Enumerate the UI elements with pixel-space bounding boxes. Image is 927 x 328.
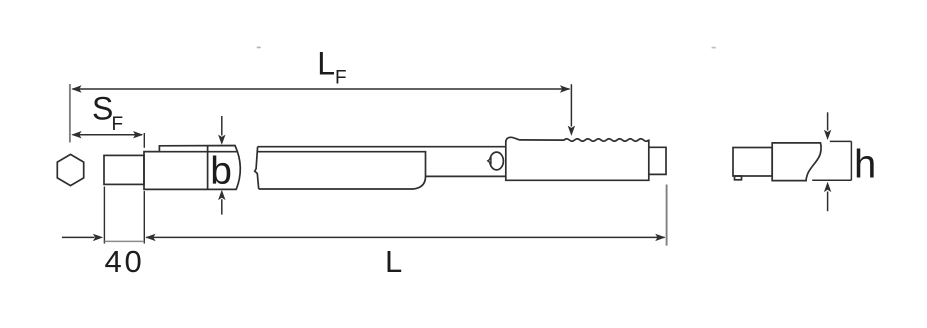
svg-text:F: F (335, 68, 347, 89)
svg-text:40: 40 (105, 244, 145, 279)
svg-text:h: h (854, 142, 876, 186)
svg-text:L: L (385, 244, 402, 279)
svg-text:b: b (210, 150, 232, 193)
svg-text:F: F (112, 114, 124, 135)
svg-text:L: L (317, 45, 335, 81)
svg-text:S: S (92, 91, 113, 127)
